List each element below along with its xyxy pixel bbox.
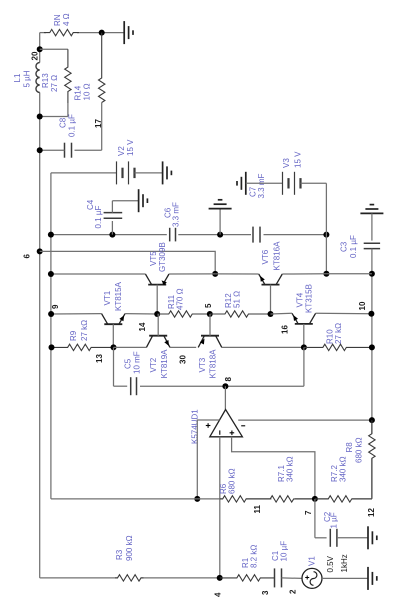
wire decoupling rail [51,234,327,236]
svg-text:27 kΩ: 27 kΩ [80,320,89,341]
node 2 [289,589,298,594]
transistor VT4 [292,313,316,324]
label V1 value [326,554,349,572]
transistor VT3 [198,336,222,348]
wire C2 lead [315,499,327,538]
junction (V+ / feedback line) [194,496,200,502]
svg-text:V3: V3 [282,158,291,168]
wire V2 to ground [135,172,163,174]
wire node6 to emitters [40,251,216,274]
svg-text:0.1 µF: 0.1 µF [68,114,77,137]
capacitor C1 [275,568,282,587]
node 5 [204,303,213,308]
label R6 [219,468,237,494]
ground (V3) [237,172,246,195]
node 17 [94,119,103,128]
svg-text:12: 12 [367,508,376,517]
svg-text:27 Ω: 27 Ω [50,75,59,92]
svg-text:3.3 mF: 3.3 mF [172,202,181,227]
svg-text:470 Ω: 470 Ω [176,288,185,310]
wire V2 feed [51,172,117,174]
resistor R1 [220,575,275,581]
transistor VT1 [102,314,126,325]
label R10 [326,323,344,344]
ground (C3, pointing up) [360,205,383,214]
label V1 [308,556,317,566]
junction (rail / C4) [109,232,115,238]
capacitor C5 [131,377,137,395]
wire V3 to bus [301,183,327,273]
wire VT5 emitter [169,273,215,275]
svg-text:5: 5 [204,303,213,308]
wire VT2-VT3 emitters [170,346,196,348]
junction (R10 / right bus) [369,344,375,350]
label R9 [69,320,89,341]
resistor RN [44,29,79,35]
svg-text:680 kΩ: 680 kΩ [355,437,364,463]
wire op-amp output [224,386,226,409]
node 3 [261,590,270,595]
resistor R3 [115,575,144,581]
junction (emitter node) [212,271,218,277]
svg-text:8: 8 [224,377,233,382]
wire VT6 emitter [215,273,259,275]
wire VT3 base [209,314,211,336]
wire bottom line [40,577,220,579]
svg-text:8.2 kΩ: 8.2 kΩ [250,545,259,568]
svg-text:10 mF: 10 mF [133,351,142,374]
junction (VT4 base node) [301,344,307,350]
junction (VT6 collector rail) [323,271,375,277]
ground (V2) [163,161,172,184]
svg-text:KT819A: KT819A [160,349,169,379]
svg-text:0.1 µF: 0.1 µF [349,235,358,258]
wire R13 bottom [40,103,68,117]
wire supply bus (second vertical) [50,173,52,499]
svg-text:20: 20 [31,51,40,60]
label VT2 [149,349,169,379]
wire VT4 base [303,324,305,348]
junction (rail left) [48,232,54,238]
svg-text:9: 9 [51,304,60,309]
wire C3 stem [371,213,373,240]
wire VT1 emitter [125,313,157,315]
svg-text:VT2: VT2 [149,357,158,372]
junction (rail / gnd stem) [217,232,223,238]
junction node 7 [312,496,318,502]
node 11 [253,504,262,513]
wire R13 top [40,48,68,50]
resistor R6 [220,496,249,502]
svg-text:30: 30 [179,355,188,364]
junction node 6 [37,248,43,254]
svg-text:R8: R8 [345,442,354,453]
label C4 [86,199,103,228]
resistor R11 [157,311,210,317]
junction (rail right) [323,232,329,238]
svg-text:10: 10 [358,301,367,310]
svg-text:R3: R3 [115,549,124,560]
svg-text:14: 14 [138,322,147,331]
svg-text:KT818A: KT818A [209,349,218,379]
resistor R12 [210,311,271,317]
svg-text:1kHz: 1kHz [340,554,349,572]
svg-text:GT309B: GT309B [158,242,167,272]
node 8 [224,377,233,382]
svg-text:17: 17 [94,119,103,128]
wire op-amp -in [232,437,315,499]
ground (V1) [368,567,377,590]
label op-amp U1 [191,409,200,444]
label R11 [167,288,185,310]
wire V1 to ground [322,577,368,579]
wire VT6 base [270,285,272,314]
svg-text:KT816A: KT816A [273,241,282,271]
label RN [53,13,71,26]
ground (C2) [368,526,377,549]
wire feedback line [51,498,372,500]
label C5 [124,351,142,374]
junction node 9 [48,311,54,317]
svg-text:5 µH: 5 µH [23,70,32,87]
label C7 [249,173,267,198]
node 30 [179,355,188,364]
svg-text:4: 4 [214,592,223,597]
resistor R13 [65,49,71,103]
junction node 20 [37,46,43,52]
svg-text:3: 3 [261,590,270,595]
svg-text:6: 6 [23,254,32,259]
svg-text:680 kΩ: 680 kΩ [228,468,237,494]
svg-text:900 kΩ: 900 kΩ [125,535,134,561]
node 20 [31,51,40,60]
capacitor C3 [364,243,380,248]
node 16 [281,325,290,334]
svg-text:1 µF: 1 µF [330,512,339,528]
label R13 [41,73,59,92]
svg-text:V2: V2 [117,146,126,156]
resistor R9 [52,344,114,350]
wire VT5 collector [51,273,145,275]
junction node 8 [222,383,228,389]
junction (R9 / bus) [49,344,55,350]
wire VT4 emitter [271,312,293,315]
node 10 [358,301,367,310]
wire VT2 collector [114,346,147,348]
wire collector link [326,273,372,275]
label VT5 [149,242,167,272]
svg-text:340 kΩ: 340 kΩ [286,456,295,482]
svg-text:15 V: 15 V [294,151,303,168]
wire C1 to V1 [282,577,303,580]
svg-text:V1: V1 [308,556,317,566]
svg-text:0.5V: 0.5V [326,555,335,572]
wire VT5 base [156,285,158,314]
wire C4 to ground [112,201,138,213]
wire right bus [371,249,373,498]
wire C4 lead [111,221,113,235]
battery V3 [283,172,301,195]
resistor R10 [304,344,372,350]
label VT6 [261,241,281,271]
svg-text:16: 16 [281,325,290,334]
op-amp U1 K574UD1 [206,410,245,437]
label R7.2 [330,456,348,482]
capacitor C4 [104,213,123,219]
svg-text:C3: C3 [340,241,349,252]
node 6 [23,254,32,259]
resistor R8 [369,420,375,499]
svg-text:27 kΩ: 27 kΩ [334,323,343,344]
svg-text:3.3 mF: 3.3 mF [257,173,266,198]
wire node13 drop [114,347,128,386]
svg-text:R13: R13 [41,73,50,88]
label C1 [271,541,289,562]
label VT1 [103,281,123,311]
junction node 16 [268,311,274,317]
source V1 [302,568,322,588]
wire VT1 collector [51,313,101,315]
wire op-amp +in [219,437,221,578]
junction node 14 [154,311,160,317]
label V3 [282,151,303,168]
wire VT2 base [157,314,159,336]
svg-text:VT4: VT4 [296,292,305,307]
battery V2 [117,161,135,184]
transistor VT6 [259,274,283,285]
wire VT4 collector [316,312,372,314]
svg-text:C5: C5 [124,358,133,369]
label C3 [340,235,359,258]
wire node 17 [75,103,102,151]
svg-text:7: 7 [304,510,313,515]
inductor L1 [36,63,40,93]
svg-text:VT1: VT1 [103,290,112,305]
wire node 8 bus [140,347,304,386]
transistor VT2 [146,336,170,348]
label VT4 [296,284,314,313]
svg-text:VT6: VT6 [261,249,270,264]
wire V3 feed [246,182,283,184]
svg-text:KT815A: KT815A [114,281,123,311]
node 4 [214,592,223,597]
node 9 [51,304,60,309]
node 14 [138,322,147,331]
ground (C4) [139,189,148,212]
junction (VT5 collector / bus) [48,271,54,277]
transistor VT5 [145,274,169,286]
svg-text:11: 11 [253,504,262,513]
svg-text:4 Ω: 4 Ω [62,13,71,26]
wire output bus node 6 (left vertical) [39,33,41,578]
capacitor C7 [253,227,260,243]
junction node 4 [217,575,223,581]
svg-text:2: 2 [289,589,298,594]
label L1 [13,70,32,87]
svg-text:C8: C8 [59,117,68,128]
svg-text:VT3: VT3 [198,357,207,372]
junction node 5 [207,311,213,317]
label C6 [164,202,181,227]
svg-text:15 V: 15 V [126,139,135,156]
resistor R14 [99,33,105,103]
junction node 13 [111,344,117,350]
svg-text:VT5: VT5 [149,251,158,266]
label C8 [59,114,77,137]
junction (V- / right bus) [369,417,375,423]
wire ground stem [219,209,221,235]
ground (RN) [124,21,133,44]
label R3 [115,535,134,561]
resistor R7.1 [249,496,315,502]
wire VT6 collector [282,273,326,275]
ground (rail, pointing up) [209,200,232,209]
junction (L1/R13 bottom) [37,114,43,120]
node 13 [95,354,104,363]
junction (C8 / bus) [37,147,43,153]
label V2 [117,139,135,156]
svg-text:13: 13 [95,354,104,363]
wire RN feed (top) [40,32,124,34]
node 12 [367,508,376,517]
label R12 [224,291,242,308]
svg-text:L1: L1 [13,73,22,82]
wire VT1 base [112,324,114,347]
wire C8 left [40,149,65,151]
junction (RN / R14) [99,30,105,36]
label R8 [345,437,364,463]
svg-text:10 µF: 10 µF [280,541,289,562]
svg-text:0.1 µF: 0.1 µF [94,206,103,229]
wire C2 to ground [337,537,368,539]
svg-text:10 Ω: 10 Ω [83,83,92,100]
capacitor C2 [330,529,337,547]
label R1 [241,545,259,568]
svg-text:KT315B: KT315B [305,284,314,313]
svg-text:51 Ω: 51 Ω [233,291,242,308]
label VT3 [198,349,218,379]
label R7.1 [277,456,295,482]
label R14 [74,83,92,100]
wire op-amp V- [238,419,372,421]
capacitor C6 [170,228,176,242]
wire VT3 right [222,346,304,348]
resistor R7.2 [315,496,372,502]
capacitor C8 [65,143,72,158]
svg-text:RN: RN [53,14,62,26]
svg-text:340 kΩ: 340 kΩ [339,456,348,482]
junction node 10 [368,311,374,317]
node 7 [304,510,313,515]
svg-text:K574UD1: K574UD1 [191,409,200,444]
svg-text:R9: R9 [69,330,78,341]
svg-text:R14: R14 [74,85,83,100]
wire op-amp V+ [197,420,219,499]
label C2 [323,511,339,528]
